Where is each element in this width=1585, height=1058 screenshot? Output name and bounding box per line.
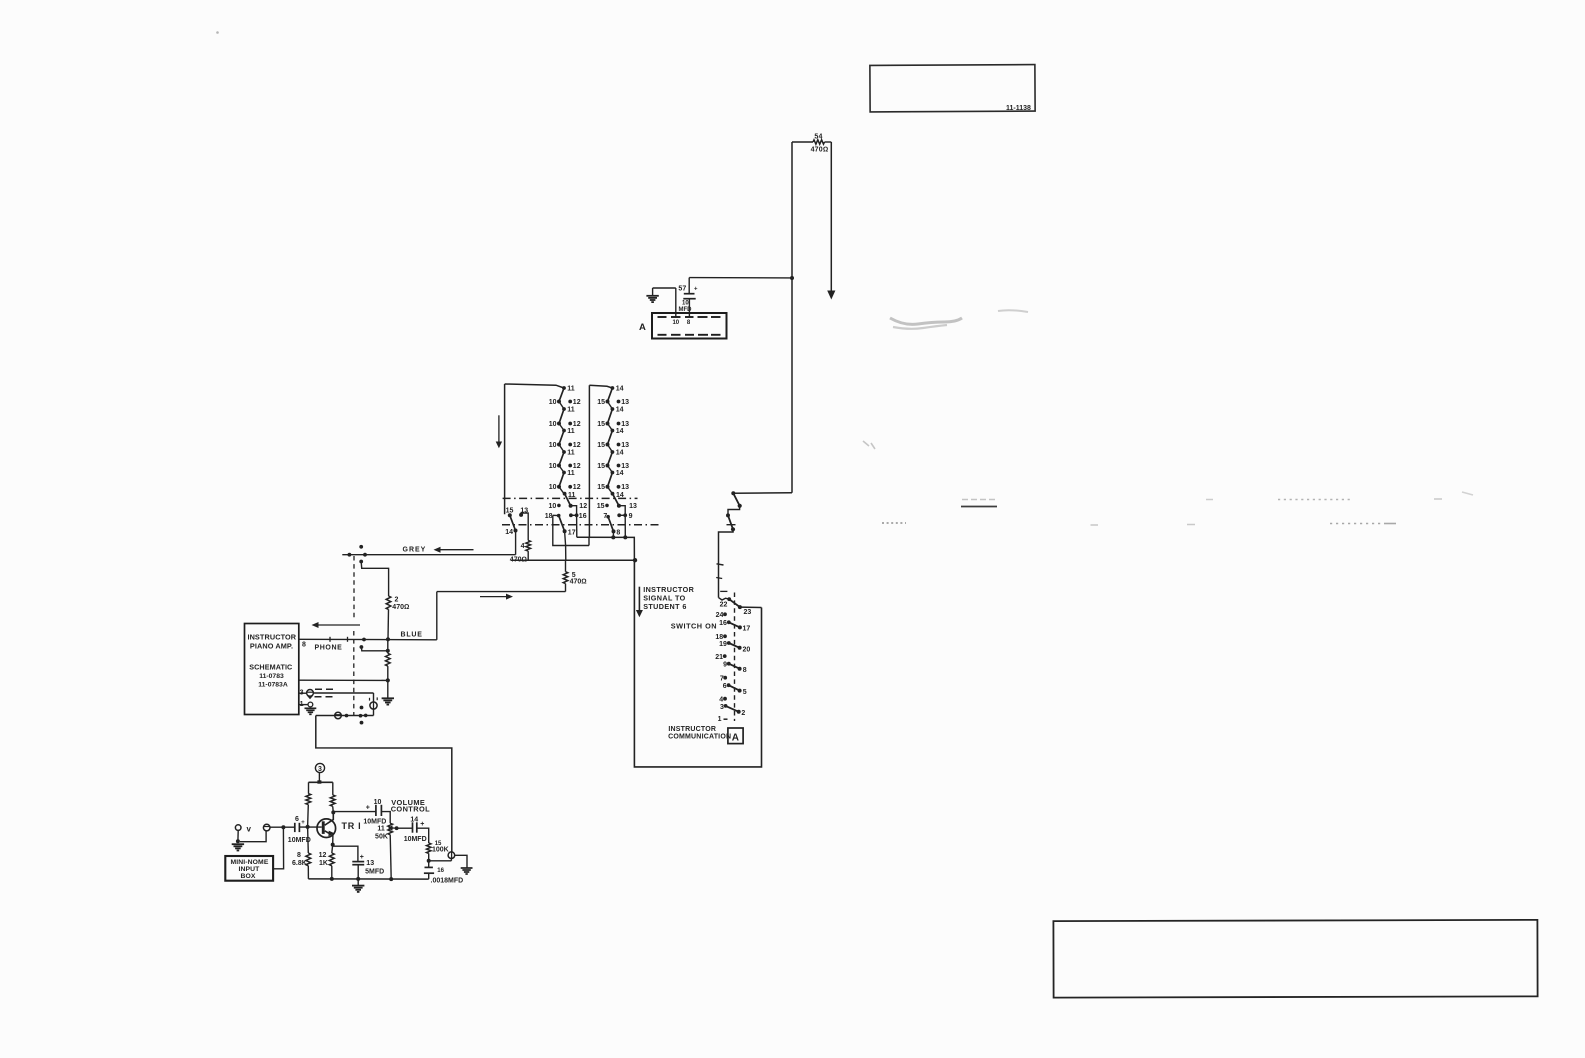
svg-text:10: 10 [549, 463, 557, 470]
wire lower jack bus [316, 715, 374, 717]
svg-text:470Ω: 470Ω [570, 579, 587, 586]
svg-text:10: 10 [549, 442, 557, 449]
svg-text:6: 6 [295, 816, 299, 823]
junction R15/C16 [427, 859, 431, 863]
svg-text:15: 15 [597, 463, 605, 470]
svg-text:10: 10 [549, 399, 557, 406]
wire to box A pin 10 [675, 288, 677, 317]
svg-text:15: 15 [597, 442, 605, 449]
svg-text:14: 14 [410, 816, 418, 823]
svg-text:1K: 1K [319, 860, 328, 867]
bias resistor upper [308, 782, 310, 793]
wire bus to TR1 output line [316, 716, 452, 852]
wire into contact 22 [719, 598, 730, 600]
svg-text:9: 9 [629, 513, 633, 520]
svg-text:INSTRUCTOR: INSTRUCTOR [668, 726, 716, 733]
switch S2-4 contacts 15/14/13 [611, 450, 615, 454]
wire emitter to C13 [333, 846, 358, 861]
svg-text:INSTRUCTOR: INSTRUCTOR [247, 633, 296, 642]
svg-text:11: 11 [567, 450, 575, 457]
blade 22->23 [729, 599, 740, 607]
wire chain down to bank [719, 529, 734, 597]
wire 13 contact down [619, 506, 625, 516]
flow arrow down (left) [498, 415, 500, 442]
wire from long vertical to chain [733, 492, 792, 495]
svg-text:14: 14 [616, 386, 624, 393]
wire BLUE / PHONE [299, 638, 437, 641]
svg-text:50K: 50K [375, 834, 388, 841]
svg-text:TR I: TR I [342, 821, 362, 831]
bottom rail [308, 878, 428, 880]
switch S2-3 contacts 15/14/13 [611, 429, 615, 433]
output jack [448, 852, 455, 859]
wire jack tip to cap 6 [270, 826, 294, 828]
wire collector to C10 [333, 811, 376, 813]
svg-text:12: 12 [573, 484, 581, 491]
svg-text:16: 16 [579, 513, 587, 520]
svg-text:11: 11 [567, 470, 575, 477]
svg-text:12: 12 [573, 463, 581, 470]
wire jack to ground [455, 855, 467, 867]
blade 6->5 [729, 685, 740, 690]
capacitor C6 10MFD [294, 823, 296, 832]
wire R2 to blue [387, 609, 390, 639]
wire to capacitor 57 [689, 277, 792, 279]
arrow left (into amp) [318, 624, 360, 626]
junction dot [362, 638, 366, 642]
enclosure wire [634, 560, 761, 767]
svg-text:COMMUNICATION: COMMUNICATION [668, 733, 731, 740]
svg-text:12: 12 [579, 503, 587, 510]
contact dot above [359, 545, 363, 549]
svg-text:7: 7 [720, 675, 724, 682]
wire riser to BLUE [436, 592, 438, 640]
switch S1-3 contacts 10/11/12 [562, 429, 566, 433]
dash-dot line (upper row) [503, 497, 638, 499]
wire step [728, 506, 740, 516]
svg-text:+: + [360, 854, 364, 861]
dash tick (line2 end) [727, 524, 736, 526]
svg-text:+: + [366, 804, 370, 811]
svg-text:16: 16 [719, 620, 727, 627]
svg-text:11: 11 [567, 386, 575, 393]
svg-text:+: + [420, 821, 424, 828]
svg-text:6: 6 [723, 683, 727, 690]
svg-text:14: 14 [505, 529, 513, 536]
svg-text:12: 12 [573, 399, 581, 406]
svg-text:15: 15 [597, 399, 605, 406]
wire C57 to box A pin 8 [688, 299, 690, 317]
dash-dot line (lower row) [502, 524, 659, 526]
svg-text:5: 5 [743, 689, 747, 696]
svg-text:v: v [247, 825, 252, 834]
svg-text:MINI-NOME: MINI-NOME [231, 859, 269, 866]
svg-text:CONTROL: CONTROL [391, 805, 430, 814]
svg-text:SWITCH ON: SWITCH ON [671, 621, 717, 630]
resistor R15 100K [427, 843, 431, 853]
svg-text:3: 3 [720, 704, 724, 711]
svg-text:8: 8 [302, 642, 306, 649]
ground (emitter rail) [357, 879, 359, 885]
shield dashes [315, 688, 336, 690]
capacitor C57 10MFD [684, 293, 695, 295]
junction instructor line [633, 558, 637, 562]
svg-text:10: 10 [672, 320, 679, 326]
contact dot below [359, 560, 363, 564]
svg-text:57: 57 [678, 286, 686, 293]
svg-text:12: 12 [319, 852, 327, 859]
svg-text:10: 10 [549, 421, 557, 428]
svg-text:10MFD: 10MFD [404, 836, 427, 843]
switch S1-2 contacts 10/11/12 [562, 407, 566, 411]
svg-text:13: 13 [366, 860, 374, 867]
svg-text:.0018MFD: .0018MFD [431, 878, 464, 885]
resistor 54 (470 ohm) [813, 140, 825, 144]
boxed A marker [728, 728, 743, 744]
ground (pin 1) [305, 707, 317, 709]
svg-text:10: 10 [549, 484, 557, 491]
wiper arrow [388, 825, 393, 830]
terminal 3 (circle) [315, 763, 324, 772]
mechanical link (dashed) upper [353, 556, 355, 620]
bus wire to instructor line [577, 537, 635, 560]
svg-text:8: 8 [297, 852, 301, 859]
wire: left column feed [505, 384, 564, 388]
junction emitter [331, 843, 335, 847]
svg-text:11: 11 [567, 407, 575, 414]
svg-text:11-0783A: 11-0783A [258, 682, 288, 689]
switch blade A1 [733, 493, 739, 506]
resistor R2 470 ohm [386, 596, 391, 609]
capacitor C14 10MFD [397, 827, 413, 829]
wire R5 to blue riser [565, 584, 567, 592]
svg-text:SCHEMATIC: SCHEMATIC [249, 663, 292, 672]
switch S2-5 contacts 15/14/13 [611, 471, 615, 475]
svg-text:10MFD: 10MFD [363, 818, 386, 825]
wire to resistor 2 [361, 562, 388, 597]
svg-text:5MFD: 5MFD [365, 869, 384, 876]
terminal box A [652, 313, 727, 339]
wire R54 left [792, 141, 813, 143]
switch S1-4 contacts 10/11/12 [562, 450, 566, 454]
svg-text:54: 54 [814, 134, 822, 141]
svg-text:8: 8 [743, 667, 747, 674]
shielded connector (pin 3) [307, 690, 314, 697]
resistor R8 6.8K [307, 827, 310, 853]
junction pot/rail [389, 877, 393, 881]
collector load resistor [332, 782, 334, 795]
connector (phones) [370, 702, 377, 709]
svg-text:9: 9 [723, 662, 727, 669]
svg-text:13: 13 [621, 484, 629, 491]
junction R3 top [386, 649, 390, 653]
svg-text:14: 14 [616, 470, 624, 477]
contact dot above bus [360, 706, 364, 710]
contacts 9 [617, 513, 621, 517]
wire C10 to pot [381, 812, 390, 824]
capacitor C16 .0018MFD [428, 861, 430, 868]
junction input [281, 825, 285, 829]
arrow right (signal direction) [480, 596, 507, 598]
junction R12/rail [330, 877, 334, 881]
svg-text:A: A [732, 733, 739, 744]
svg-text:10: 10 [682, 301, 689, 307]
svg-text:11: 11 [567, 428, 575, 435]
wire amp output 2 [299, 679, 388, 681]
switch S2-1 contacts 15/14/13 [611, 386, 615, 390]
junction base [306, 825, 310, 829]
svg-text:+: + [694, 287, 698, 293]
svg-text:BLUE: BLUE [401, 632, 423, 639]
switch S1-6 thrown 11->12 [563, 492, 567, 496]
scan artifacts (faint) [216, 31, 1473, 525]
svg-text:11: 11 [377, 826, 385, 833]
svg-text:4: 4 [521, 543, 525, 550]
svg-text:23: 23 [744, 609, 752, 616]
svg-text:10: 10 [549, 503, 557, 510]
switch S1-1 contacts 10/11/12 [562, 386, 566, 390]
svg-text:2: 2 [741, 710, 745, 717]
base wire [300, 826, 322, 828]
junction collector [331, 810, 335, 814]
svg-text:15: 15 [597, 484, 605, 491]
wire R54 right + arrow down [825, 141, 832, 143]
blade 19->20 [729, 643, 740, 648]
mechanical link (dashed) lower [353, 631, 355, 715]
svg-text:1: 1 [718, 716, 722, 723]
svg-text:24: 24 [716, 612, 724, 619]
svg-text:13: 13 [629, 503, 637, 510]
svg-text:14: 14 [616, 407, 624, 414]
contacts 16 [569, 513, 573, 517]
svg-text:14: 14 [616, 450, 624, 457]
contact dot below bus [360, 721, 364, 725]
resistor R12 1K [331, 845, 334, 853]
connector ticks on phone wire [329, 637, 331, 642]
svg-text:4: 4 [719, 696, 723, 703]
ground (box A pin 10) [653, 287, 676, 289]
svg-text:18: 18 [545, 513, 553, 520]
wire pot to rail [390, 835, 391, 879]
junction: cap 57 tee [790, 276, 794, 280]
resistor R3 [387, 639, 389, 653]
svg-text:16: 16 [437, 868, 444, 874]
resistor R5 470 ohm [565, 560, 567, 571]
wire R4 to bus [527, 551, 529, 560]
contact dot + link to R3 [360, 645, 364, 649]
emitter stroke w/ arrow [325, 831, 332, 835]
capacitor C13 5MFD [352, 861, 364, 863]
wire: 470 ohm bus [511, 559, 635, 561]
connector circle on bus [335, 712, 342, 719]
instructor piano amp box [245, 624, 299, 715]
svg-text:11-1138: 11-1138 [1006, 105, 1031, 112]
mini-nome input box [225, 856, 273, 881]
wire: long vertical from R54 to switch chain [791, 142, 793, 493]
ground (output jack) [461, 867, 473, 869]
svg-text:14: 14 [616, 428, 624, 435]
svg-text:470Ω: 470Ω [811, 147, 829, 154]
junction dots on bus [345, 714, 349, 718]
svg-text:10: 10 [374, 799, 382, 806]
svg-text:17: 17 [743, 626, 751, 633]
switch S1-5 contacts 10/11/12 [562, 471, 566, 475]
svg-text:STUDENT 6: STUDENT 6 [643, 602, 687, 611]
wire 18 branch [553, 515, 589, 545]
input jack tip [263, 824, 270, 831]
junction dots on grey wire [348, 553, 352, 557]
svg-text:PIANO AMP.: PIANO AMP. [250, 642, 293, 651]
svg-text:13: 13 [621, 421, 629, 428]
svg-text:8: 8 [616, 530, 620, 537]
switch blade A2 [728, 515, 733, 529]
wire pin3 to output jack chain [313, 692, 373, 694]
svg-text:6.8K: 6.8K [292, 860, 307, 867]
wire: right column feed [589, 385, 612, 388]
potentiometer R11 50K [388, 823, 393, 834]
svg-text:17: 17 [568, 529, 576, 536]
wire 17 down to 470 bus [565, 531, 566, 560]
switch S2-2 contacts 15/14/13 [611, 407, 615, 411]
svg-text:21: 21 [715, 654, 723, 661]
svg-text:15: 15 [597, 503, 605, 510]
tick marks on wire [717, 564, 724, 565]
wire 23 out [740, 606, 762, 608]
capacitor C10 10MFD [375, 805, 377, 816]
wire 14 down to grey wire [515, 531, 517, 555]
svg-text:2: 2 [395, 597, 399, 604]
ground (R3) [382, 697, 394, 699]
title box [870, 65, 1035, 112]
wire GREY [342, 554, 515, 556]
bottom blank box [1053, 920, 1537, 998]
svg-text:13: 13 [621, 463, 629, 470]
blade 16->17 [729, 622, 740, 627]
svg-text:11-0783: 11-0783 [259, 673, 284, 680]
svg-text:19: 19 [719, 641, 727, 648]
svg-text:15: 15 [597, 421, 605, 428]
switch S0 blade 15->14 [510, 515, 516, 530]
top rail [309, 781, 333, 783]
junction C13/rail [356, 877, 360, 881]
collector stroke [325, 812, 334, 825]
wire input to mini-nome box [273, 827, 283, 869]
svg-text:470Ω: 470Ω [392, 604, 409, 611]
arrow: instructor signal to student 6 [638, 587, 640, 611]
svg-text:13: 13 [621, 442, 629, 449]
svg-text:12: 12 [573, 421, 581, 428]
transistor TR1 [317, 819, 336, 838]
blade 9->8 [729, 664, 740, 669]
wire C14 to R15 [417, 828, 429, 843]
switch S2-6 thrown 14->13 [611, 492, 615, 496]
wire 12 contact down to 16 [571, 506, 577, 516]
wire 16 down to bus [576, 515, 578, 537]
svg-text:13: 13 [621, 399, 629, 406]
resistor R4 470 ohm [526, 540, 531, 551]
blade 3->2 [726, 706, 739, 712]
svg-text:12: 12 [573, 442, 581, 449]
wire 13 to resistor 4 [521, 513, 528, 540]
svg-text:+: + [301, 820, 305, 826]
mechanical link dashed (bank) [734, 593, 736, 722]
svg-text:BOX: BOX [240, 873, 255, 880]
svg-text:22: 22 [720, 601, 728, 608]
svg-text:20: 20 [743, 647, 751, 654]
junction [386, 678, 390, 682]
junction blue/R2 [386, 637, 390, 641]
svg-text:3: 3 [318, 766, 322, 773]
svg-text:PHONE: PHONE [315, 645, 343, 652]
svg-text:100K: 100K [432, 847, 449, 854]
svg-text:GREY: GREY [403, 547, 427, 554]
svg-text:MFD: MFD [679, 307, 693, 313]
wire jack tip sleeve [240, 831, 266, 842]
wire to output jack [429, 860, 452, 862]
input jack ring [235, 825, 241, 831]
arrow left (grey signal direction) [440, 549, 474, 551]
arrowhead down (R54 branch) [827, 291, 835, 300]
wire 9 down to bus [624, 515, 626, 537]
wire jack ring to ground [237, 830, 239, 841]
svg-text:A: A [639, 322, 646, 333]
